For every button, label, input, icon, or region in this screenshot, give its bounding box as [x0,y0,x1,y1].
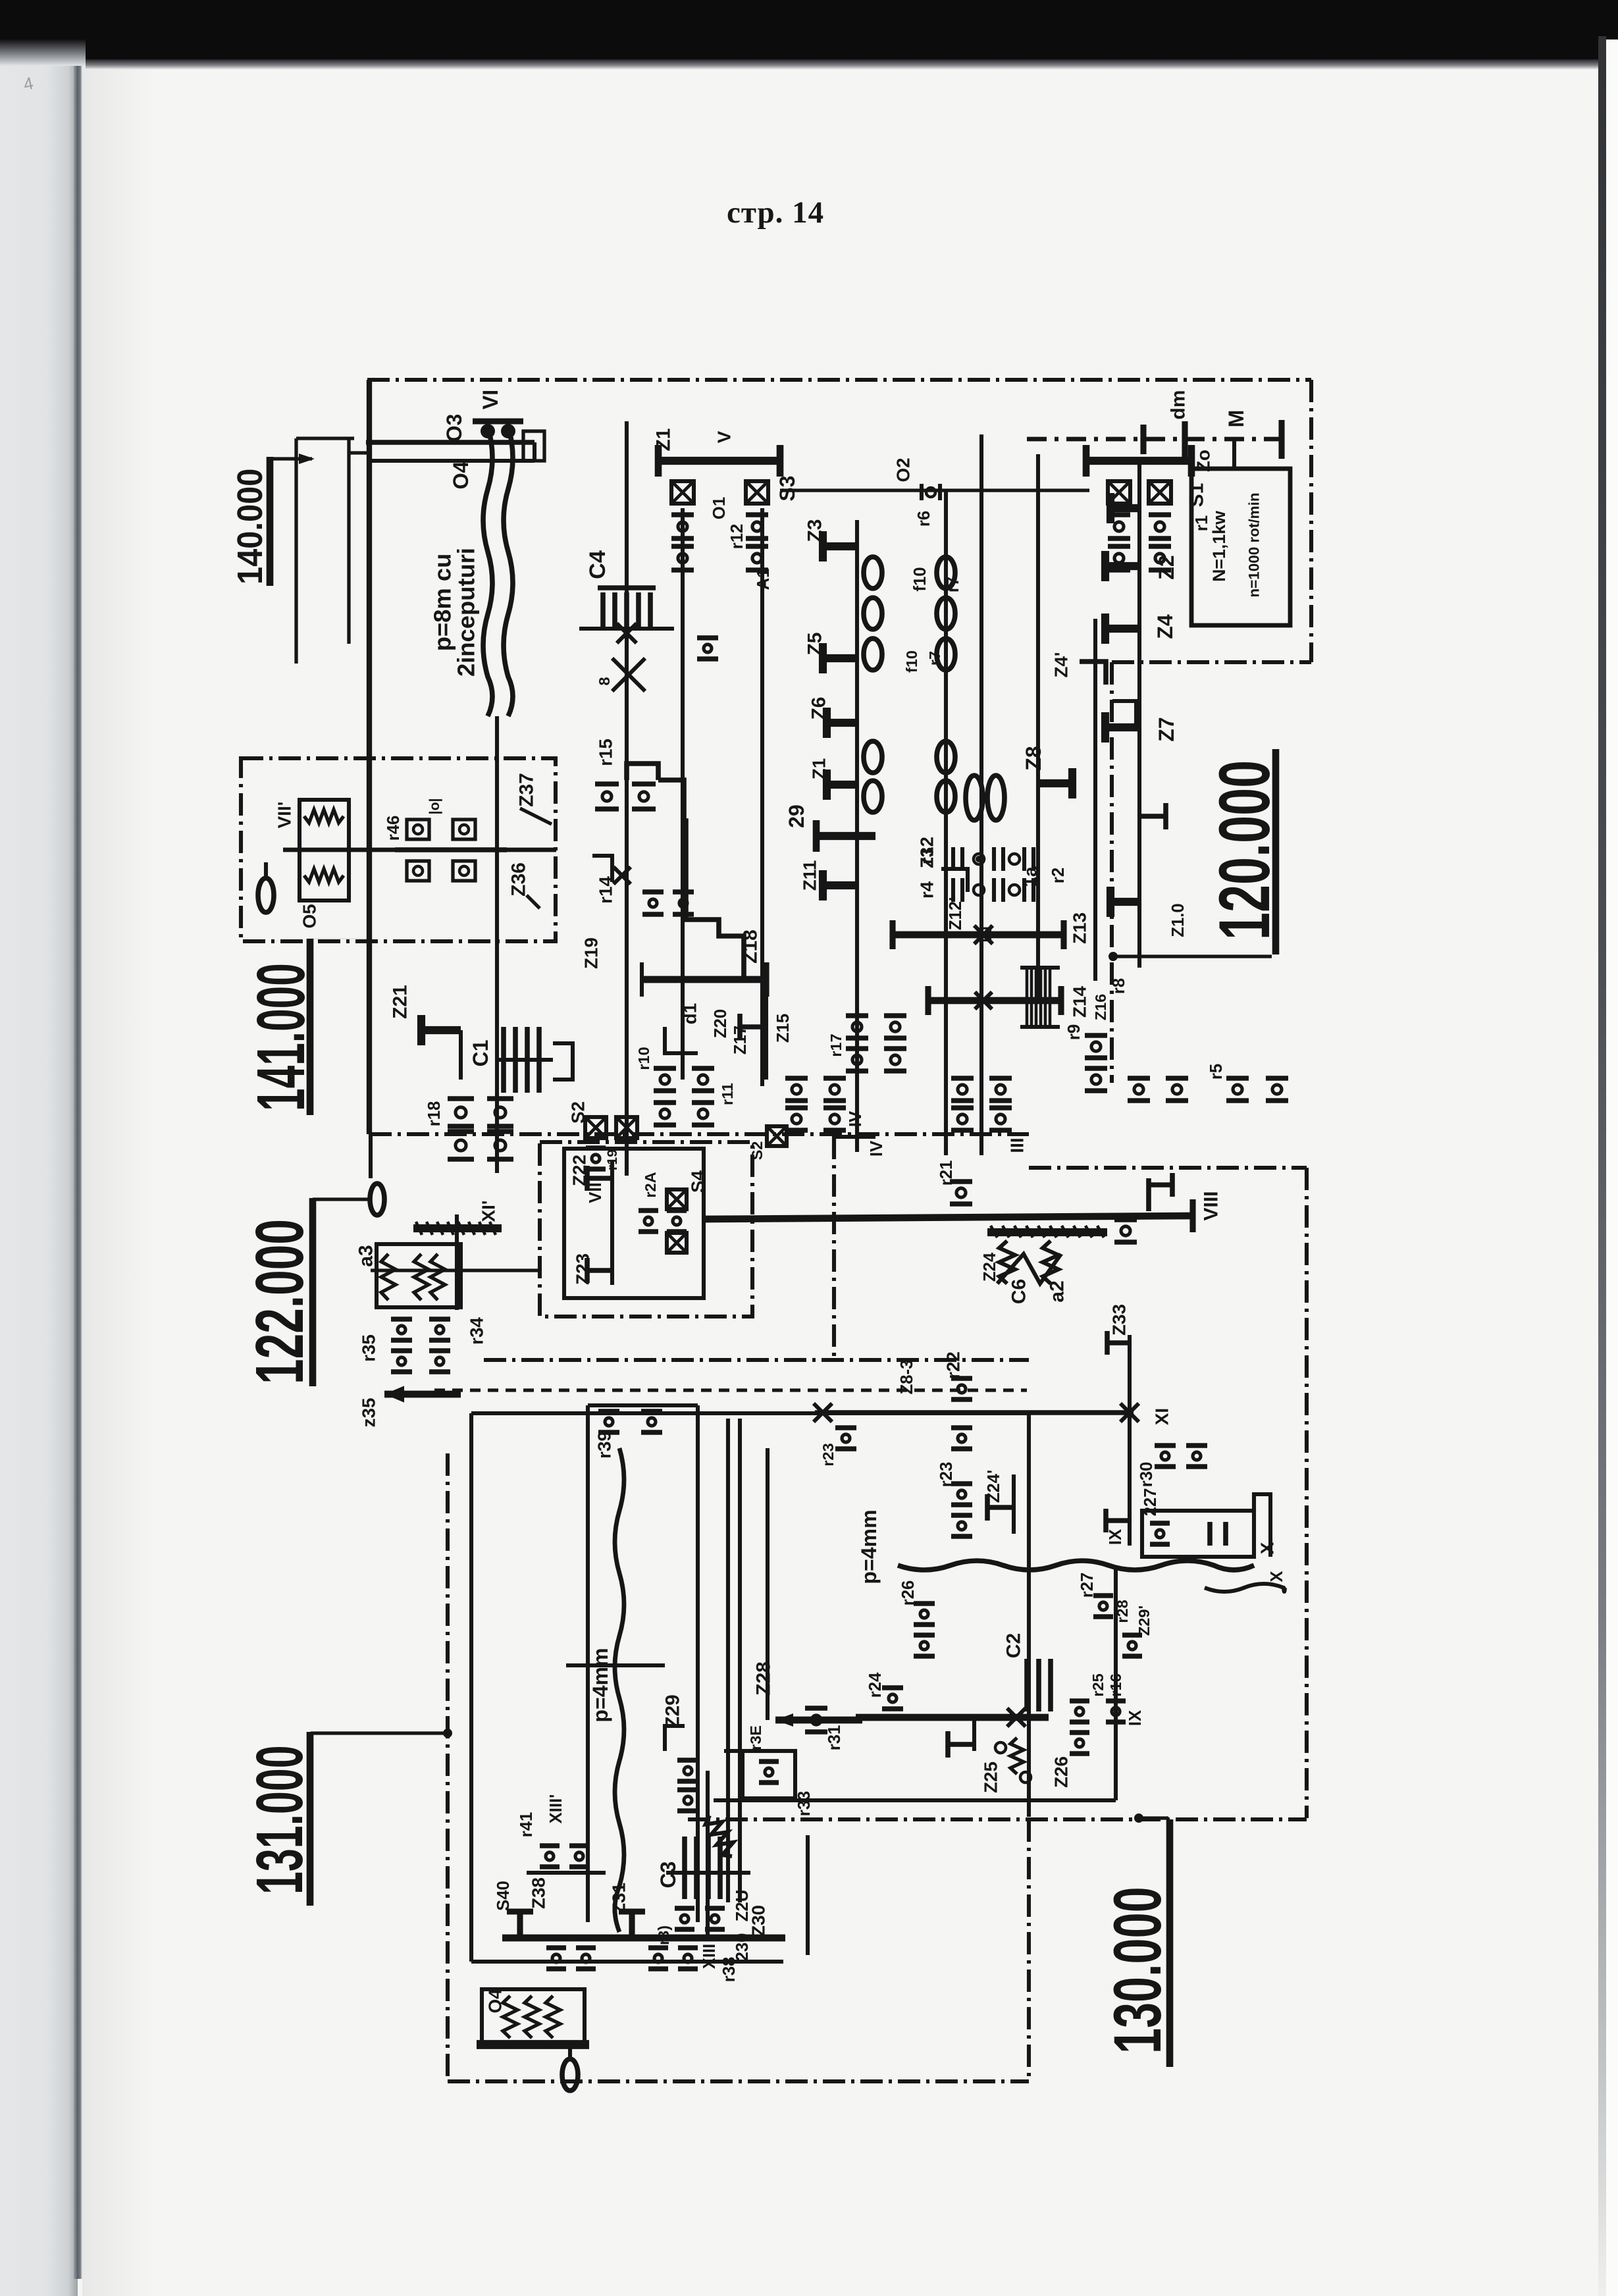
svg-text:a2: a2 [1047,1280,1068,1302]
svg-text:131.000: 131.000 [242,1745,317,1894]
svg-text:O5: O5 [300,904,320,928]
svg-text:Z3: Z3 [804,519,826,542]
svg-text:r46: r46 [384,816,403,841]
svg-text:r25: r25 [1089,1673,1107,1696]
svg-text:Z29': Z29' [1135,1605,1153,1636]
svg-text:Z12': Z12' [947,897,965,930]
svg-text:Z36: Z36 [508,862,530,897]
svg-text:r33: r33 [795,1791,814,1817]
svg-text:r39: r39 [594,1431,615,1459]
svg-text:S3: S3 [775,475,799,501]
svg-text:O4: O4 [485,1989,506,2014]
svg-text:XI': XI' [479,1201,499,1222]
svg-text:r31: r31 [825,1725,844,1751]
svg-text:C1: C1 [469,1039,492,1066]
svg-text:130.000: 130.000 [1100,1887,1175,2054]
svg-text:Z18: Z18 [740,929,762,964]
svg-text:r6: r6 [915,511,933,527]
svg-text:f10: f10 [911,567,929,591]
svg-text:X: X [1257,1542,1278,1554]
svg-text:r22: r22 [943,1351,964,1379]
svg-text:r4: r4 [917,881,937,899]
svg-text:C6: C6 [1008,1279,1030,1304]
svg-text:r7: r7 [944,577,962,592]
svg-text:VIII: VIII [1201,1191,1222,1221]
svg-text:r9: r9 [1065,1024,1083,1040]
svg-text:O2: O2 [893,457,914,482]
svg-text:Z21: Z21 [390,985,411,1019]
svg-text:r23: r23 [820,1443,837,1466]
svg-text:N=1,1kw: N=1,1kw [1209,511,1229,582]
svg-text:r38: r38 [720,1957,739,1983]
svg-text:X: X [1268,1571,1286,1582]
svg-text:IV: IV [868,1141,886,1157]
svg-text:r17: r17 [827,1033,845,1057]
svg-text:140.000: 140.000 [230,469,270,585]
svg-text:Z6: Z6 [808,697,830,720]
svg-text:r10: r10 [635,1047,652,1070]
svg-text:8: 8 [596,677,613,685]
svg-text:dm: dm [1168,390,1189,420]
svg-text:III: III [1007,1137,1028,1153]
svg-text:r18: r18 [425,1101,444,1127]
svg-text:Z29: Z29 [662,1694,684,1729]
svg-text:Z8: Z8 [1022,746,1045,770]
svg-text:Z28: Z28 [753,1661,775,1696]
svg-text:Z16: Z16 [1092,994,1109,1021]
svg-text:p=4mm: p=4mm [588,1648,612,1722]
svg-text:r3E: r3E [747,1725,764,1750]
svg-text:M: M [1224,410,1248,428]
svg-text:XIII: XIII [700,1944,719,1970]
svg-text:Z5: Z5 [804,633,826,656]
svg-text:Z24: Z24 [981,1252,999,1282]
svg-text:r5: r5 [1207,1064,1226,1080]
svg-text:O4: O4 [449,461,473,489]
svg-text:p=8m cu: p=8m cu [429,554,456,652]
svg-text:122.000: 122.000 [241,1219,317,1384]
svg-text:S4: S4 [688,1170,708,1193]
svg-text:Z1: Z1 [653,429,675,452]
svg-text:r35: r35 [359,1334,379,1362]
svg-text:Z37: Z37 [516,773,538,807]
svg-text:Z15: Z15 [774,1014,793,1043]
svg-text:d1: d1 [680,1003,700,1024]
svg-text:29: 29 [785,804,808,828]
svg-text:IX: IX [1126,1710,1145,1726]
svg-text:Z33: Z33 [1109,1304,1130,1336]
svg-text:VII': VII' [274,802,295,829]
svg-text:XIII': XIII' [547,1794,565,1824]
svg-text:XI: XI [1152,1408,1172,1425]
svg-text:n=1000 rot/min: n=1000 rot/min [1246,492,1263,597]
svg-text:a3: a3 [355,1245,377,1266]
svg-text:Z14: Z14 [1070,986,1090,1018]
svg-text:Z13: Z13 [1070,912,1090,944]
svg-text:r34: r34 [467,1317,487,1345]
svg-text:z35: z35 [359,1398,379,1428]
svg-text:r3: r3 [917,847,937,864]
svg-text:V: V [714,430,735,443]
svg-text:Z1.0: Z1.0 [1169,903,1187,937]
svg-text:r8: r8 [1110,978,1128,994]
svg-text:r7: r7 [926,651,943,665]
svg-text:r2A: r2A [642,1172,659,1197]
svg-text:C4: C4 [585,550,610,579]
svg-text:S2: S2 [568,1101,588,1124]
svg-text:Z8-3: Z8-3 [898,1360,916,1395]
svg-text:p=4mm: p=4mm [857,1509,881,1584]
svg-text:Z4: Z4 [1153,614,1177,639]
svg-text:Z7: Z7 [1155,717,1178,741]
svg-text:IX: IX [1107,1529,1125,1545]
svg-text:Z4': Z4' [1051,652,1072,677]
svg-text:Z26: Z26 [1051,1756,1072,1788]
svg-text:r2: r2 [1049,868,1068,883]
svg-text:Z19: Z19 [581,937,602,969]
svg-text:Z1: Z1 [809,758,829,779]
svg-text:S40: S40 [494,1881,513,1911]
svg-text:S1: S1 [1186,483,1208,508]
svg-text:Z25: Z25 [981,1761,1001,1793]
svg-text:Z20: Z20 [712,1009,730,1038]
svg-text:r30: r30 [1137,1462,1156,1488]
svg-text:r15: r15 [596,739,616,766]
svg-text:O1: O1 [710,497,729,519]
svg-text:Z11: Z11 [800,860,820,891]
svg-text:C2: C2 [1003,1633,1025,1658]
svg-text:VI: VI [479,390,502,409]
svg-text:O3: O3 [442,414,466,442]
svg-text:Z38: Z38 [529,1877,549,1909]
svg-text:r1: r1 [1193,515,1211,531]
svg-text:|o|: |o| [427,798,442,814]
svg-text:Z30: Z30 [748,1905,769,1937]
svg-text:r41: r41 [517,1812,536,1838]
svg-text:Z31: Z31 [609,1883,629,1914]
svg-text:r11: r11 [719,1083,736,1105]
svg-text:f10: f10 [903,650,920,673]
svg-text:r24: r24 [866,1672,885,1698]
svg-text:Z2: Z2 [1155,555,1178,579]
svg-text:2inceputuri: 2inceputuri [453,548,480,677]
svg-text:r12: r12 [728,524,746,550]
